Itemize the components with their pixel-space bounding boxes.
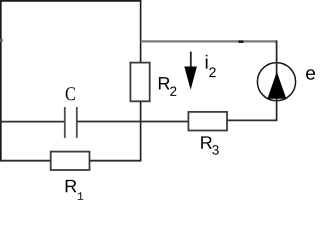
wire: capacitor right lead to R3 (crosses middle vertical) <box>77 121 189 123</box>
current arrow i2 (head, filled triangle down) <box>184 67 197 90</box>
wire: capacitor left lead <box>0 121 65 123</box>
current source e (circle) <box>257 63 295 101</box>
label R3 <box>201 136 212 148</box>
label R1 <box>66 180 77 192</box>
wire: left vertical rail <box>0 0 2 162</box>
junction mark on upper-right wire <box>238 40 243 43</box>
wire: middle vertical lower (R2 bottom to bottom rail) <box>140 101 142 161</box>
capacitor C right plate <box>76 107 78 138</box>
wire: R1 left lead <box>0 160 51 162</box>
resistor R2 <box>130 63 149 102</box>
wire: middle vertical upper (top rail to R2 top) <box>140 0 142 63</box>
current source arrow (filled triangle up) <box>267 72 286 99</box>
resistor R3 <box>188 112 227 131</box>
wire: segment through current source <box>276 63 278 102</box>
current arrow i2 (stem) <box>190 52 192 69</box>
wire: R1 right lead <box>90 160 142 162</box>
label i2 <box>206 55 208 69</box>
label e <box>306 69 315 79</box>
wire: bottom-right horizontal (R3 right lead) <box>227 119 277 121</box>
node nub on left rail <box>0 39 3 41</box>
label C <box>66 87 75 100</box>
label R2 <box>159 77 170 89</box>
capacitor C left plate <box>64 107 66 138</box>
wire: top horizontal rail <box>0 0 142 2</box>
resistor R1 <box>51 152 90 170</box>
wire: right vertical (through current source) <box>276 40 278 120</box>
wire: upper-right horizontal (junction to current source) <box>141 40 277 42</box>
